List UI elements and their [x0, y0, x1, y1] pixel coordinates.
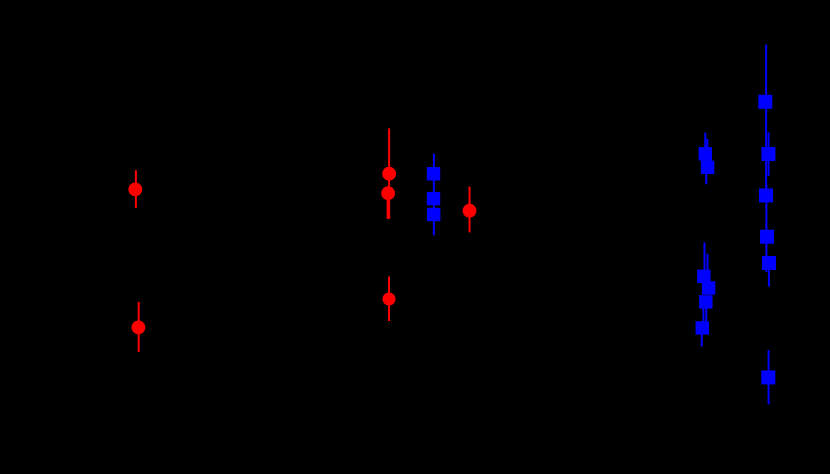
blue group2 error bar tail — [701, 330, 703, 347]
blue group1 error bar a — [704, 133, 706, 174]
blue square D — [699, 147, 712, 160]
blue group1 error bar b — [706, 139, 708, 160]
blue cluster 1 error bar — [433, 154, 435, 236]
blue square B — [427, 192, 440, 205]
blue square H — [699, 295, 712, 308]
red point 4 — [381, 186, 395, 200]
red point 5 error bar — [388, 277, 390, 322]
red point 1 — [128, 183, 142, 197]
red point 2 — [132, 321, 146, 335]
blue square R4 — [760, 230, 774, 244]
red point 2 error bar — [138, 302, 140, 352]
blue square E — [701, 161, 714, 174]
blue right error bar 3 — [765, 185, 767, 272]
blue square R1 — [758, 95, 772, 109]
red point 5 — [383, 293, 396, 306]
red point 6 error bar — [469, 187, 471, 233]
blue group1 error bar tail — [705, 170, 707, 184]
blue group2 error bar a — [704, 243, 706, 273]
red point 6 — [463, 204, 477, 218]
blue right error bar 5 — [768, 350, 770, 405]
blue group2 error bar d — [705, 300, 707, 322]
blue square R2 — [761, 147, 775, 161]
red stack error bar 2 — [387, 193, 389, 219]
blue group2 error bar b — [707, 254, 709, 284]
blue square I — [696, 321, 709, 334]
blue right error bar 2 — [768, 133, 770, 177]
blue right error bar 1 — [765, 45, 767, 190]
blue square R6 — [761, 370, 775, 384]
blue square R3 — [759, 188, 773, 202]
blue right error bar 4 — [768, 263, 770, 287]
blue square A — [427, 167, 440, 180]
red point 3 — [382, 167, 396, 181]
blue square R5 — [762, 256, 776, 270]
blue square C — [427, 208, 440, 221]
red stack error bar long — [388, 128, 390, 219]
red point 1 error bar — [135, 170, 137, 208]
blue square G — [702, 281, 715, 294]
blue group2 error bar c — [702, 300, 704, 322]
blue square F — [697, 270, 710, 283]
